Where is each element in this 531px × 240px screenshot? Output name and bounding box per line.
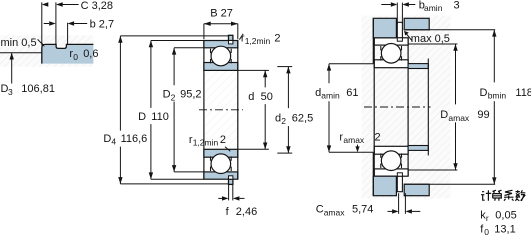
svg-text:C: C <box>316 204 324 216</box>
svg-text:2,46: 2,46 <box>236 206 257 218</box>
svg-text:116,6: 116,6 <box>121 133 148 145</box>
svg-text:1,2min: 1,2min <box>245 36 271 46</box>
svg-text:2: 2 <box>220 134 226 146</box>
svg-text:2: 2 <box>375 131 381 143</box>
svg-text:amax: amax <box>343 135 365 145</box>
svg-text:61: 61 <box>346 87 358 99</box>
svg-text:0,6: 0,6 <box>83 48 98 60</box>
svg-text:min 0,5: min 0,5 <box>1 37 37 49</box>
svg-text:C 3,28: C 3,28 <box>81 0 113 12</box>
svg-text:5,74: 5,74 <box>352 204 373 216</box>
svg-text:0: 0 <box>484 227 489 236</box>
svg-text:99: 99 <box>477 109 489 121</box>
svg-text:f: f <box>226 206 230 218</box>
svg-text:r: r <box>486 213 489 223</box>
svg-text:1,2min: 1,2min <box>193 138 219 148</box>
svg-text:D: D <box>440 109 448 121</box>
svg-text:62,5: 62,5 <box>292 112 313 124</box>
svg-text:B 27: B 27 <box>210 8 233 20</box>
svg-text:D: D <box>103 133 111 145</box>
svg-text:amin: amin <box>424 3 443 13</box>
svg-text:D: D <box>163 89 171 101</box>
svg-text:2: 2 <box>171 93 176 103</box>
svg-text:0,05: 0,05 <box>495 209 516 221</box>
svg-text:110: 110 <box>151 111 169 123</box>
svg-text:amin: amin <box>321 91 340 101</box>
svg-text:bmin: bmin <box>488 91 507 101</box>
svg-text:d: d <box>315 87 321 99</box>
svg-text:106,81: 106,81 <box>21 83 55 95</box>
svg-text:D: D <box>480 87 488 99</box>
svg-text:13,1: 13,1 <box>494 223 515 235</box>
svg-text:b 2,7: b 2,7 <box>90 19 114 31</box>
svg-text:amax: amax <box>448 113 470 123</box>
svg-text:0: 0 <box>73 52 78 62</box>
svg-text:D: D <box>138 111 146 123</box>
svg-text:2: 2 <box>274 32 280 44</box>
svg-text:3: 3 <box>8 87 13 97</box>
svg-text:3: 3 <box>454 0 460 11</box>
svg-text:2: 2 <box>281 116 286 126</box>
svg-text:50: 50 <box>261 91 273 103</box>
svg-text:95,2: 95,2 <box>180 89 201 101</box>
svg-text:max 0,5: max 0,5 <box>411 33 450 45</box>
svg-text:118: 118 <box>515 87 531 99</box>
svg-text:4: 4 <box>111 137 116 147</box>
svg-text:d: d <box>248 91 254 103</box>
svg-text:amax: amax <box>324 207 346 217</box>
